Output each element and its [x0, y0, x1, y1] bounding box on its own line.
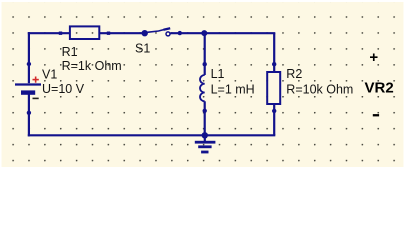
svg-text:+: +	[369, 49, 378, 66]
svg-text:U=10 V: U=10 V	[42, 82, 85, 96]
svg-text:S1: S1	[135, 42, 150, 56]
svg-text:R=1k Ohm: R=1k Ohm	[62, 59, 122, 73]
svg-text:L1: L1	[211, 67, 225, 81]
svg-text:R=10k Ohm: R=10k Ohm	[286, 82, 353, 96]
svg-text:VR2: VR2	[365, 80, 394, 97]
svg-text:L=1 mH: L=1 mH	[211, 83, 255, 97]
svg-text:R1: R1	[62, 45, 78, 59]
svg-text:V1: V1	[42, 68, 57, 82]
svg-text:R2: R2	[286, 67, 302, 81]
